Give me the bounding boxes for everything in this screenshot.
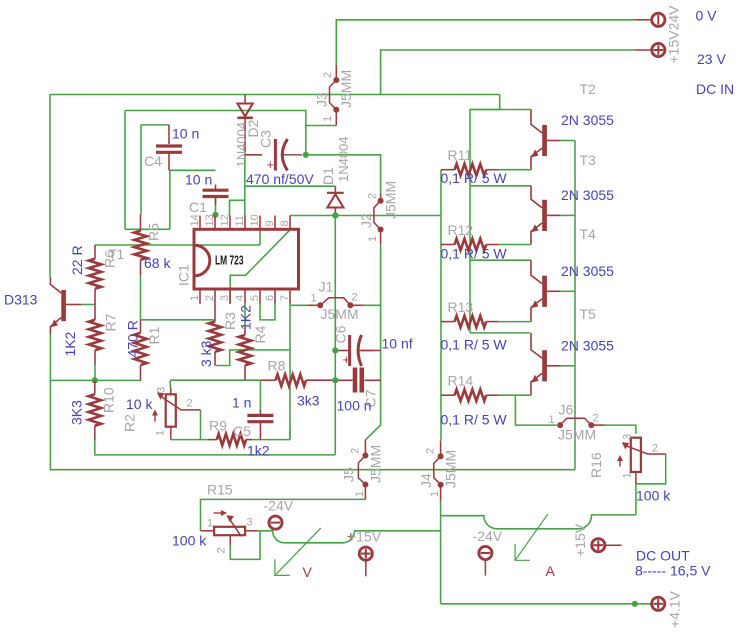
label -24V meterA [473, 528, 503, 544]
potentiometer R16 [617, 438, 666, 484]
svg-text:470 R: 470 R [125, 320, 141, 357]
pin 10 IC1 [249, 214, 261, 229]
capacitor C4 lead top [168, 125, 170, 144]
svg-text:0,1 R/ 5 W: 0,1 R/ 5 W [441, 246, 508, 262]
svg-text:1: 1 [549, 414, 555, 426]
diode D2 lead top [244, 95, 246, 104]
svg-text:J6: J6 [559, 402, 574, 418]
wire y=229 R5 top row [125, 228, 170, 230]
svg-text:1K2: 1K2 [62, 331, 78, 356]
label R16 value [636, 488, 671, 504]
label J1 name [319, 279, 334, 295]
svg-text:10 k: 10 k [126, 396, 153, 412]
jumper J6 lead right [591, 424, 604, 426]
label R1 name [146, 326, 162, 344]
wire C4 bottom down [169, 170, 171, 229]
wire J6 tap [515, 395, 556, 425]
wire x=125 down [124, 111, 126, 230]
wire base drive row y=304.5 [82, 304, 96, 306]
resistor R6 [89, 259, 102, 289]
wire base T5 [561, 365, 576, 367]
label DC OUT [636, 548, 690, 564]
resistor R12 lead right [486, 244, 498, 246]
svg-text:5: 5 [249, 295, 261, 301]
svg-text:R16: R16 [588, 452, 604, 478]
svg-text:0 V: 0 V [696, 8, 718, 24]
label R11 value [441, 170, 508, 186]
svg-text:C5: C5 [233, 423, 251, 439]
resistor R8 lead right [306, 379, 335, 381]
label R14 name [448, 373, 474, 389]
pin 11 IC1 [234, 215, 246, 229]
svg-text:23 V: 23 V [697, 51, 726, 67]
svg-text:1N4004: 1N4004 [234, 122, 249, 168]
label D2 name [245, 119, 261, 137]
diode D1 [327, 193, 344, 208]
label J4 pin2 [425, 448, 437, 454]
svg-text:-24V: -24V [264, 498, 294, 514]
svg-text:1: 1 [367, 236, 379, 242]
capacitor C6 lead right [357, 350, 375, 352]
svg-text:C4: C4 [144, 153, 162, 169]
label J6 pin1 [549, 414, 555, 426]
resistor R8 [276, 374, 306, 386]
wire 23V rail [381, 50, 635, 95]
svg-text:2: 2 [425, 448, 437, 454]
svg-text:10 n: 10 n [172, 126, 199, 142]
resistor R11 lead right [486, 169, 498, 171]
capacitor C1 lead top [215, 185, 217, 189]
resistor R7 [89, 320, 102, 350]
label R13 name [448, 299, 474, 315]
resistor R9 lead right [246, 439, 252, 441]
potentiometer R15 [201, 510, 258, 545]
terminal 23V [635, 43, 665, 56]
wire C7 right link [365, 379, 381, 381]
svg-text:T4: T4 [580, 226, 597, 242]
resistor R3 lead bottom [214, 352, 216, 366]
wire D1 anode row y=186 [245, 185, 336, 187]
label R2 pin2 [187, 398, 193, 410]
svg-text:V: V [303, 564, 313, 580]
label J3 pin1 [322, 116, 334, 122]
wire 0V rail top [336, 20, 634, 73]
svg-text:2N 3055: 2N 3055 [561, 263, 614, 279]
wire emitter rail x441 [440, 170, 442, 441]
label J4 pin1 [429, 491, 441, 497]
junction C7 [332, 377, 338, 383]
label R7 value [62, 331, 78, 356]
label J1 pin1 [311, 293, 317, 305]
svg-text:J4: J4 [418, 473, 434, 488]
wire +24V main rail y=94 [50, 94, 500, 96]
resistor R6 lead top [94, 245, 96, 259]
wire left rail bottom [50, 380, 575, 469]
jumper J2 lead bottom [380, 230, 382, 245]
wire pin10 inner [259, 229, 261, 245]
label R16 name [588, 452, 604, 478]
diode D1 lead bottom [334, 208, 336, 216]
wire emitter T1 down [49, 334, 51, 380]
pin 1 IC1 [189, 289, 201, 304]
resistor R10 lead top [94, 380, 96, 394]
wire R13 to emitter [499, 321, 532, 323]
label +15V right [572, 523, 588, 557]
wire pin8 to D1 row [290, 215, 335, 217]
svg-text:6: 6 [264, 295, 276, 301]
svg-text:+15V: +15V [572, 523, 588, 557]
label 0V [696, 8, 718, 24]
junction pin13 [212, 212, 218, 218]
svg-text:D313: D313 [4, 292, 38, 308]
label J1 value [321, 306, 359, 322]
label R7 name [103, 313, 119, 331]
svg-text:+: + [343, 352, 351, 367]
label R16 pin2 [652, 443, 658, 455]
svg-text:2: 2 [367, 193, 379, 199]
capacitor C3 plus [267, 157, 275, 172]
pin 6 IC1 [264, 289, 276, 304]
svg-text:10: 10 [249, 214, 261, 226]
label 23V [697, 51, 726, 67]
label J4 name [418, 473, 434, 488]
wire C6 right link [361, 350, 381, 352]
resistor R1 [134, 333, 147, 365]
resistor R4 lead top [244, 304, 246, 335]
label J2 name [358, 213, 374, 228]
resistor R10 lead bottom [94, 426, 96, 440]
wire pot pin2 link [200, 410, 202, 440]
svg-text:J3: J3 [314, 92, 330, 107]
label R3 name [222, 312, 238, 330]
svg-text:2: 2 [352, 292, 358, 304]
resistor R11 [455, 164, 487, 176]
resistor R5 lead top [140, 215, 142, 231]
label C6 value [382, 336, 413, 352]
wire R9 row right [252, 439, 290, 441]
svg-text:22 R: 22 R [69, 245, 85, 275]
wire J4 to A row [440, 515, 442, 517]
svg-text:J5MM: J5MM [368, 445, 384, 483]
label C7 name [363, 389, 379, 407]
svg-text:J2: J2 [358, 213, 374, 228]
resistor R7 lead bottom [94, 350, 96, 365]
label R15 pin3 [247, 517, 253, 529]
meter V needle [275, 528, 321, 575]
svg-text:1: 1 [622, 472, 634, 478]
pin 7 IC1 [279, 289, 291, 304]
resistor R13 lead left [441, 321, 455, 323]
wire R16 to A meter [635, 484, 637, 515]
svg-text:2N 3055: 2N 3055 [561, 112, 614, 128]
label J3 name [314, 92, 330, 107]
svg-text:R5: R5 [146, 223, 162, 241]
label J5 value [368, 445, 384, 483]
resistor R1 lead bottom [140, 365, 142, 380]
svg-text:LM 723: LM 723 [215, 253, 244, 268]
label C7 value [337, 398, 372, 414]
capacitor C6 plus [343, 352, 351, 367]
label R16 pin1 [622, 472, 634, 478]
svg-text:J5MM: J5MM [338, 70, 354, 108]
svg-text:IC1: IC1 [176, 264, 192, 286]
label J6 name [559, 402, 574, 418]
label IC1 value [215, 253, 244, 268]
label J2 pin2 [367, 193, 379, 199]
label -24V meterV [264, 498, 294, 514]
wire pin12 branch [230, 200, 245, 215]
wire output bottom [441, 603, 651, 605]
wire y=380 left row [50, 379, 141, 381]
wire C6 row left [335, 350, 339, 352]
resistor R12 [455, 239, 487, 251]
svg-text:2: 2 [593, 413, 599, 425]
jumper J1 [317, 298, 353, 309]
resistor R5 [134, 231, 147, 260]
terminal +15V bottom-left [359, 547, 372, 576]
diode D2 lead bottom [244, 118, 246, 155]
svg-text:2: 2 [652, 443, 658, 455]
jumper J3 lead top [335, 65, 337, 80]
label J2 value [383, 181, 399, 219]
wire T3 collector row [470, 185, 531, 187]
wire left rail to T1 collector [49, 95, 51, 278]
terminal 0V [635, 13, 665, 26]
terminal DC OUT [652, 597, 665, 610]
junction D1 [332, 212, 338, 218]
junction C3 [303, 152, 309, 158]
svg-text:1k2: 1k2 [247, 443, 270, 459]
transistor T2 2N3055 [531, 110, 561, 170]
svg-text:R6: R6 [102, 250, 118, 268]
resistor R3 lead top [214, 304, 216, 322]
wire x335 vertical [334, 216, 336, 455]
svg-text:D1: D1 [320, 167, 336, 185]
wire pin8 diagonal [230, 230, 290, 304]
svg-text:R9: R9 [209, 418, 227, 434]
wire pin7 net down [289, 304, 291, 440]
label IC1 name [176, 264, 192, 286]
resistor R3 [209, 322, 222, 352]
meter V plus [347, 529, 355, 544]
label R2 pin3 [156, 387, 168, 393]
svg-text:1: 1 [189, 295, 201, 301]
svg-text:+: + [267, 157, 275, 172]
svg-text:1: 1 [429, 491, 441, 497]
svg-text:-24V: -24V [473, 528, 503, 544]
resistor R14 lead left [441, 394, 455, 396]
resistor R7 lead top [94, 305, 96, 320]
jumper J3 lead bottom [335, 110, 337, 126]
svg-text:A: A [546, 563, 556, 579]
pin 5 IC1 [249, 289, 261, 304]
label J2 pin1 [367, 236, 379, 242]
svg-text:13: 13 [204, 214, 216, 226]
label T1 value [4, 292, 38, 308]
label R12 name [448, 222, 474, 238]
label T3 name [580, 152, 597, 168]
wire R15 pin2 loop [230, 531, 260, 560]
svg-text:12: 12 [219, 214, 231, 226]
transistor T3 2N3055 [531, 186, 561, 245]
svg-text:J5MM: J5MM [321, 306, 359, 322]
wire J4 lower drop [440, 501, 442, 604]
jumper J2 [374, 198, 384, 233]
svg-text:J1: J1 [319, 279, 334, 295]
svg-text:9: 9 [264, 220, 276, 226]
jumper J1 lead left [308, 304, 320, 306]
capacitor C6 lead left [339, 350, 350, 352]
wire base T3 [561, 214, 576, 216]
wire V meter row [257, 531, 440, 543]
label D1 name [320, 167, 336, 185]
svg-text:3: 3 [219, 295, 231, 301]
label R11 name [448, 147, 473, 163]
svg-text:0,1 R/ 5 W: 0,1 R/ 5 W [441, 337, 508, 353]
wire C5 top link [259, 380, 261, 410]
label C4 name [144, 153, 162, 169]
meter A needle [515, 514, 548, 560]
label J4 value [443, 450, 459, 488]
svg-text:1: 1 [322, 116, 334, 122]
svg-text:8----- 16,5 V: 8----- 16,5 V [635, 563, 711, 579]
capacitor C1 lead bottom [215, 197, 217, 205]
svg-text:10 n: 10 n [185, 172, 212, 188]
svg-text:C1: C1 [189, 199, 207, 215]
label T2 name [580, 81, 597, 97]
label R15 pin1 [207, 518, 213, 530]
label DC IN [696, 81, 734, 97]
svg-text:R8: R8 [268, 358, 286, 374]
svg-text:T5: T5 [580, 306, 597, 322]
label C4 value [172, 126, 199, 142]
svg-text:100 k: 100 k [636, 488, 671, 504]
wire J3 pad1 branch [306, 125, 337, 127]
label DC OUT range [635, 563, 711, 579]
svg-text:R4: R4 [252, 325, 268, 343]
resistor R9 [217, 434, 246, 446]
jumper J1 lead right [350, 304, 363, 306]
label R1 value [125, 320, 141, 357]
svg-text:R7: R7 [103, 313, 119, 331]
svg-text:3K3: 3K3 [69, 400, 85, 425]
wire R12 to emitter [499, 244, 532, 246]
label +15V bottom-left [348, 529, 382, 545]
svg-text:R15: R15 [207, 482, 233, 498]
svg-text:68 k: 68 k [144, 255, 171, 271]
resistor R13 lead right [486, 321, 498, 323]
label C1 name [189, 199, 207, 215]
wire R11 to emitter [499, 169, 532, 171]
svg-text:3 k3: 3 k3 [198, 340, 214, 367]
svg-text:R14: R14 [448, 373, 474, 389]
pin 2 IC1 [204, 289, 216, 304]
wire R16 pin2 loop [636, 454, 666, 484]
label R3 value [198, 340, 214, 367]
label +4.1V [667, 590, 683, 628]
wire base rail bottom [574, 365, 576, 470]
op-amp IC1 body [194, 229, 299, 289]
label T2 value [561, 112, 614, 128]
label T4 name [580, 226, 597, 242]
svg-text:1: 1 [155, 430, 167, 436]
wire R5/R1 row to pin2 [141, 319, 214, 321]
resistor R11 lead left [441, 169, 455, 171]
wire T2 collector row [470, 109, 531, 111]
label R13 value [441, 337, 508, 353]
wire A meter row [441, 515, 636, 529]
jumper J2 lead top [380, 194, 382, 201]
capacitor C5 lead top [259, 410, 261, 414]
wire R7 bottom [94, 365, 96, 380]
label R2 name [122, 414, 138, 432]
label J3 pin2 [322, 72, 334, 78]
resistor R10 [89, 394, 102, 425]
label R9 name [209, 418, 227, 434]
wire J1 pad2 to x380 [364, 304, 381, 306]
capacitor C7 lead left [335, 379, 352, 381]
wire C1 to pin13 [215, 199, 217, 216]
wire pin11 net [244, 155, 246, 216]
diode D1 lead top [334, 186, 336, 193]
wire T5 collector row [470, 332, 530, 334]
resistor R1 lead top [140, 320, 142, 333]
junction R7/R10 [92, 377, 98, 383]
label R12 value [441, 246, 508, 262]
svg-text:1: 1 [311, 293, 317, 305]
svg-text:0,1 R/ 5 W: 0,1 R/ 5 W [441, 412, 508, 428]
capacitor C7 [355, 368, 362, 393]
label D1 value [336, 136, 351, 182]
svg-text:R3: R3 [222, 312, 238, 330]
resistor R5 lead bottom [140, 260, 142, 276]
capacitor C5 [247, 415, 273, 421]
label T4 value [561, 263, 614, 279]
pin 8 IC1 [279, 216, 291, 230]
transistor T5 2N3055 [531, 333, 561, 395]
label J5 pin1 [354, 491, 366, 497]
capacitor C3 lead left [245, 154, 262, 156]
pin 12 IC1 [219, 214, 231, 229]
svg-text:J5MM: J5MM [443, 450, 459, 488]
label R15 name [207, 482, 233, 498]
svg-text:2N 3055: 2N 3055 [561, 337, 614, 353]
label R14 value [441, 412, 508, 428]
svg-text:J5MM: J5MM [383, 181, 399, 219]
wire pot row y=380 [170, 379, 260, 381]
jumper J6 [557, 418, 594, 428]
label J6 pin2 [593, 413, 599, 425]
capacitor C6 [350, 335, 362, 366]
wire x380 vertical [365, 244, 380, 440]
wire R14 to emitter [499, 394, 532, 396]
wire J6 pad2 to R16 [605, 425, 636, 434]
wire R10 bottom [95, 440, 335, 455]
label R4 value [238, 305, 254, 330]
wire y=110 C3 branch [125, 111, 306, 155]
jumper J4 lead top [440, 441, 442, 457]
wire base T4 [561, 290, 576, 292]
label T5 name [580, 306, 597, 322]
label R16 pin3 [622, 434, 634, 440]
junction C6 [332, 347, 338, 353]
label C3 value [246, 171, 314, 187]
label C1 value [185, 172, 212, 188]
label D2 value [234, 122, 249, 168]
terminal -24V meterV [269, 516, 282, 529]
label R8 name [268, 358, 286, 374]
label J6 value [558, 427, 596, 443]
